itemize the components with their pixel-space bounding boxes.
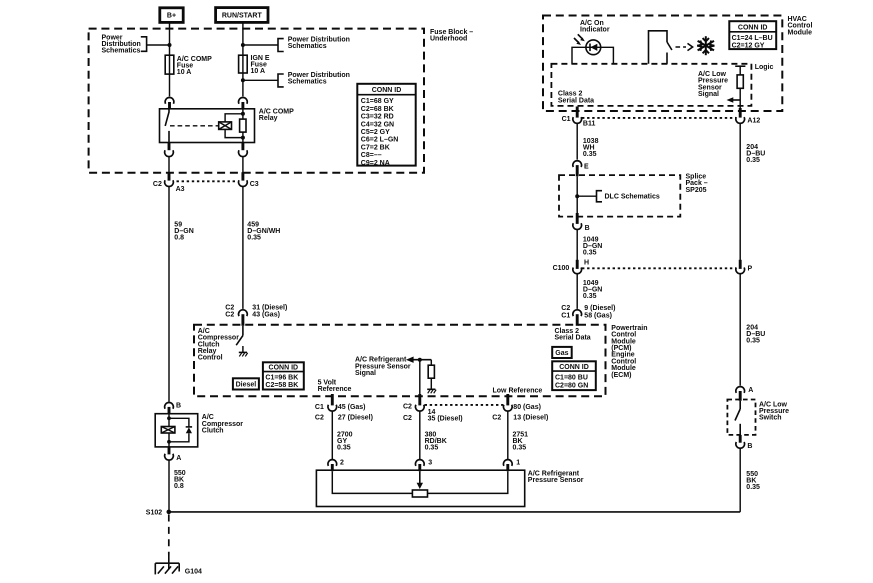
dotted connector line C100 H to P	[582, 267, 736, 269]
wire sensor signal down to PCM edge	[419, 360, 421, 394]
wire 550 BK 0.35 down to S102 line	[739, 448, 741, 512]
arrow to snowflake	[688, 43, 693, 50]
connector cup B11	[573, 117, 582, 123]
svg-text:58 (Gas): 58 (Gas)	[584, 312, 612, 319]
wire relay to fuse block edge (right)	[242, 157, 244, 174]
svg-text:27 (Diesel): 27 (Diesel)	[338, 414, 373, 421]
ground (PCM sensor)	[427, 388, 435, 390]
wire 1038 WH down	[576, 123, 578, 159]
node junction on RUN/START wire (upper)	[241, 43, 245, 47]
clutch coil box with X	[161, 427, 175, 434]
powertrain control module dashed box	[194, 325, 606, 396]
svg-text:Relay: Relay	[259, 115, 278, 122]
wire 550 BK 0.8 down to S102	[168, 460, 170, 512]
svg-text:Clutch: Clutch	[202, 428, 224, 435]
pin into LP switch	[739, 391, 742, 401]
clutch coil wire top	[168, 414, 170, 426]
svg-text:C4=32 GN: C4=32 GN	[361, 121, 394, 128]
node junction on B+ wire	[168, 43, 172, 47]
A/C low pressure switch dashed box	[727, 400, 755, 435]
svg-text:1: 1	[516, 459, 520, 466]
wire 1049 D-GN upper	[576, 230, 578, 262]
wire inside splice pack	[576, 176, 578, 213]
lamp A/C On indicator (LED circle)	[586, 40, 601, 55]
bracket to DLC Schematics	[597, 191, 603, 202]
svg-text:0.35: 0.35	[425, 445, 439, 452]
svg-text:0.35: 0.35	[583, 151, 597, 158]
svg-text:B: B	[176, 403, 181, 410]
connector arch E into splice pack	[573, 161, 582, 167]
svg-text:C2: C2	[225, 305, 234, 312]
svg-text:S102: S102	[146, 510, 162, 517]
svg-text:31 (Diesel): 31 (Diesel)	[252, 305, 287, 312]
switch A/C request (in HVAC)	[649, 31, 668, 64]
wire 459 D-GN/WH from C3 down to PCM	[242, 186, 244, 309]
wire bracket to B+ node	[147, 44, 170, 46]
dashed wire S102 to G104	[168, 515, 170, 555]
pin out of splice pack	[576, 213, 579, 224]
node S102 splice	[167, 510, 172, 515]
svg-text:Schematics: Schematics	[288, 43, 327, 50]
svg-text:2: 2	[340, 459, 344, 466]
wire 59 D-GN from A3 down to clutch	[168, 186, 170, 402]
svg-text:C2: C2	[225, 312, 234, 319]
svg-text:C1=24 L–BU: C1=24 L–BU	[732, 35, 773, 42]
svg-text:Control: Control	[198, 355, 223, 362]
connector arch pin 1	[503, 460, 512, 466]
pin C100 (left)	[576, 260, 579, 269]
node junction on RUN/START wire (lower)	[241, 78, 245, 82]
svg-text:0.35: 0.35	[583, 250, 597, 257]
svg-text:G104: G104	[185, 569, 202, 576]
snowflake symbol	[697, 36, 714, 55]
switch blade	[667, 42, 672, 50]
svg-text:Logic: Logic	[755, 64, 774, 71]
svg-text:H: H	[584, 260, 589, 267]
resistor (PCM pull)	[428, 365, 434, 378]
svg-text:Schematics: Schematics	[102, 47, 141, 54]
svg-text:CONN ID: CONN ID	[372, 87, 402, 94]
wire 204 D-BU lower	[739, 274, 741, 386]
svg-text:E: E	[584, 163, 589, 170]
svg-text:CONN ID: CONN ID	[269, 365, 299, 372]
svg-text:C100: C100	[553, 265, 570, 272]
wire junction to DLC bracket	[577, 195, 596, 197]
svg-text:10 A: 10 A	[251, 68, 266, 75]
pin C100 (right P)	[739, 260, 742, 269]
svg-text:C8=––: C8=––	[361, 152, 382, 159]
svg-text:Switch: Switch	[759, 415, 782, 422]
connector arch A into LP switch	[736, 387, 745, 393]
clutch coil wire bottom	[168, 433, 170, 447]
pin out of relay (left)	[168, 143, 171, 151]
pin into PCM (class2)	[576, 314, 579, 326]
svg-text:0.35: 0.35	[513, 445, 527, 452]
pin 3 into sensor	[418, 464, 421, 471]
wire relay right through resistor	[242, 109, 244, 119]
connector arch at relay pin 2	[239, 98, 248, 104]
pin into clutch	[168, 407, 171, 415]
connector arch pin 2	[328, 460, 337, 466]
svg-text:Module: Module	[788, 29, 813, 36]
node clutch top junction	[167, 416, 171, 420]
svg-text:Low Reference: Low Reference	[493, 388, 543, 395]
bracket to Power Distribution Schematics (upper right)	[278, 39, 284, 52]
node RUN/START terminal box	[216, 8, 268, 23]
svg-text:0.35: 0.35	[746, 157, 760, 164]
node B+ terminal box	[160, 8, 183, 23]
svg-text:C2=80 GN: C2=80 GN	[555, 382, 588, 389]
LP switch blade	[735, 409, 740, 421]
wire coil parallel branch bottom	[225, 129, 243, 137]
svg-text:C1: C1	[562, 116, 571, 123]
connector cup below relay (left)	[165, 150, 174, 156]
wire 2700 GY down	[331, 411, 333, 459]
svg-text:9 (Diesel): 9 (Diesel)	[584, 305, 615, 312]
connector cup below relay (right)	[239, 150, 248, 156]
sensor internal right wire	[428, 471, 508, 493]
pin out of PCM (5V ref)	[331, 394, 334, 405]
svg-text:0.35: 0.35	[337, 445, 351, 452]
relay actuation dashed link	[170, 125, 219, 127]
svg-text:C2=58 BK: C2=58 BK	[265, 382, 298, 389]
ground (PCM relay control)	[242, 346, 244, 352]
connector arch pin 3	[415, 460, 424, 466]
svg-text:80 (Gas): 80 (Gas)	[513, 404, 541, 411]
svg-text:Diesel: Diesel	[236, 382, 257, 389]
svg-text:A12: A12	[747, 118, 760, 125]
svg-text:C2=12 GY: C2=12 GY	[732, 42, 765, 49]
fuse IGN E Fuse 10 A	[239, 55, 248, 73]
svg-text:B+: B+	[167, 13, 176, 20]
relay control switch blade	[236, 336, 243, 346]
svg-text:CONN ID: CONN ID	[559, 364, 589, 371]
node clutch bottom junction	[167, 440, 171, 444]
svg-text:C2: C2	[403, 415, 412, 422]
svg-text:C2: C2	[561, 305, 570, 312]
svg-text:Reference: Reference	[318, 386, 352, 393]
bracket to Power Distribution Schematics (left)	[141, 37, 147, 52]
svg-text:Serial Data: Serial Data	[555, 335, 591, 342]
svg-text:CONN ID: CONN ID	[738, 24, 768, 31]
svg-text:C3: C3	[250, 181, 259, 188]
svg-text:C1=96 BK: C1=96 BK	[265, 374, 298, 381]
svg-text:C1: C1	[315, 404, 324, 411]
bracket to Power Distribution Schematics (lower right)	[278, 74, 284, 87]
CONN ID table (HVAC)	[729, 21, 776, 49]
svg-text:C2=68 BK: C2=68 BK	[361, 106, 394, 113]
connector cup P	[736, 268, 745, 274]
wire junction to bracket (lower right)	[243, 79, 278, 81]
svg-text:DLC Schematics: DLC Schematics	[605, 194, 660, 201]
wire resistor to ground	[430, 378, 432, 389]
dotted connector line B11 to A12	[582, 117, 736, 119]
wire coil parallel branch top	[225, 114, 243, 122]
wire relay to fuse block edge (left)	[168, 157, 170, 174]
pin C1 out of HVAC	[576, 107, 579, 118]
svg-text:43 (Gas): 43 (Gas)	[252, 312, 280, 319]
svg-text:B11: B11	[583, 120, 596, 127]
svg-text:45 (Gas): 45 (Gas)	[338, 404, 366, 411]
wire RUN/START down to fuse	[242, 22, 244, 55]
svg-text:A: A	[176, 455, 181, 462]
pin out of PCM (sensor signal)	[418, 394, 421, 405]
svg-text:Gas: Gas	[555, 350, 568, 357]
wire 1049 D-GN lower	[576, 274, 578, 309]
wire logic down	[739, 66, 741, 75]
connector C3 cup (right)	[239, 180, 248, 186]
svg-text:B: B	[585, 225, 590, 232]
svg-text:0.35: 0.35	[247, 234, 261, 241]
svg-text:B: B	[747, 443, 752, 450]
relay coil box with X	[219, 122, 232, 129]
pin into relay (right)	[241, 102, 244, 110]
sensor internal left wire	[332, 471, 412, 493]
svg-text:C3=32 RD: C3=32 RD	[361, 114, 394, 121]
svg-text:Pressure Sensor: Pressure Sensor	[528, 477, 584, 484]
HVAC control module dashed box	[543, 16, 782, 112]
relay switch contact (left)	[165, 109, 169, 126]
svg-text:C9=2 NA: C9=2 NA	[361, 160, 390, 167]
ground G104	[168, 555, 170, 570]
pin into splice pack	[576, 165, 579, 176]
LP switch lower stub	[739, 424, 741, 435]
pin A12 out of HVAC	[739, 108, 742, 118]
relay K: A/C COMP Relay box	[160, 109, 255, 143]
svg-text:C2: C2	[403, 404, 412, 411]
svg-text:Underhood: Underhood	[430, 35, 467, 42]
connector cup A (clutch)	[165, 454, 174, 460]
connector cup C100 H	[573, 268, 582, 274]
svg-text:C1=80 BU: C1=80 BU	[555, 374, 588, 381]
svg-text:Signal: Signal	[698, 91, 719, 98]
svg-text:(ECM): (ECM)	[611, 372, 631, 379]
pin out of PCM (low ref)	[506, 394, 509, 405]
connector arch at relay pin 1	[165, 98, 174, 104]
dashed actuation to snowflake	[676, 46, 687, 48]
wire resistor down	[739, 88, 741, 108]
CONN ID table (fuse block)	[357, 84, 415, 166]
svg-text:0.35: 0.35	[746, 484, 760, 491]
pin crossing fuse block edge (left)	[168, 172, 171, 180]
A/C compressor clutch box	[155, 414, 198, 447]
svg-text:RUN/START: RUN/START	[222, 13, 263, 20]
relay switch lower contact stub	[168, 131, 170, 143]
svg-text:3: 3	[428, 460, 432, 467]
clutch diode branch	[169, 418, 189, 427]
Diesel tag box	[233, 378, 259, 389]
indicator light arrows	[578, 34, 583, 39]
connector cup C1/C2 45/27	[328, 405, 337, 411]
svg-text:35 (Diesel): 35 (Diesel)	[428, 416, 463, 423]
fuse A/C COMP Fuse 10 A	[165, 55, 174, 74]
svg-text:C6=2 L–GN: C6=2 L–GN	[361, 137, 399, 144]
wire 204 D-BU upper	[739, 123, 741, 261]
svg-text:A: A	[748, 387, 753, 394]
svg-text:Indicator: Indicator	[580, 27, 610, 34]
node junction on sensor signal wire	[418, 358, 422, 362]
sensor internal signal wire with arrow	[419, 471, 421, 483]
connector arch into PCM (class2)	[573, 310, 582, 316]
wire 2751 BK down	[507, 411, 509, 459]
arrow A/C refrigerant pressure sensor signal	[406, 357, 414, 363]
CONN ID table (PCM diesel)	[263, 362, 304, 389]
svg-text:C1=68 GY: C1=68 GY	[361, 98, 394, 105]
wire fuse B down	[242, 73, 244, 96]
logic inner dashed box	[551, 64, 751, 106]
connector arch B (clutch)	[165, 403, 174, 409]
svg-text:Serial Data: Serial Data	[558, 97, 594, 104]
svg-text:0.8: 0.8	[174, 483, 184, 490]
connector cup C2 80/13	[503, 405, 512, 411]
wire fuse A to relay	[169, 74, 171, 96]
connector arch into PCM (relay control)	[239, 310, 248, 316]
svg-text:Signal: Signal	[355, 370, 376, 377]
wire to PCM internal resistor	[430, 360, 432, 366]
svg-text:0.8: 0.8	[174, 234, 184, 241]
svg-text:Schematics: Schematics	[288, 78, 327, 85]
connector cup B (splice)	[573, 223, 582, 229]
splice pack dashed box	[559, 175, 680, 217]
connector C2 cup (left)	[165, 180, 174, 186]
pin 1 into sensor	[506, 464, 509, 471]
pin out of LP switch	[739, 435, 742, 443]
node relay top junction	[241, 112, 245, 116]
resistor (HVAC pull-up)	[737, 75, 743, 88]
pin 2 into sensor	[331, 464, 334, 471]
node relay bottom junction	[241, 136, 245, 140]
svg-text:13 (Diesel): 13 (Diesel)	[513, 414, 548, 421]
CONN ID table (PCM gas)	[552, 361, 596, 390]
svg-text:0.35: 0.35	[583, 293, 597, 300]
svg-text:A3: A3	[176, 186, 185, 193]
wire indicator left leg	[572, 47, 613, 64]
svg-text:10 A: 10 A	[177, 69, 192, 76]
Gas tag box	[552, 347, 572, 358]
svg-text:C7=2 BK: C7=2 BK	[361, 144, 390, 151]
switch lower stub	[666, 53, 668, 64]
dotted connector line C2 to C3	[177, 180, 237, 182]
node splice junction	[575, 194, 579, 198]
pin out of clutch	[168, 447, 171, 455]
svg-text:C5=2 GY: C5=2 GY	[361, 129, 390, 136]
A/C refrigerant pressure sensor box	[316, 470, 524, 506]
relay control wire inside PCM	[242, 326, 244, 336]
sensor transducer element	[412, 490, 427, 497]
wire S102 bus to right	[169, 511, 740, 513]
pin into relay (left)	[168, 102, 171, 110]
pin into PCM (relay control)	[241, 314, 244, 326]
wire B+ down to fuse	[169, 22, 171, 55]
connector cup C2 14/35	[415, 405, 424, 411]
svg-text:P: P	[748, 266, 753, 273]
svg-text:C2: C2	[315, 414, 324, 421]
pin crossing fuse block edge (right)	[241, 172, 244, 180]
svg-text:C1: C1	[561, 312, 570, 319]
relay internal resistor	[240, 119, 246, 132]
pin out of relay (right)	[241, 143, 244, 151]
wire 380 RD/BK down	[419, 411, 421, 459]
diode (clutch flyback)	[186, 426, 192, 428]
fuse block - underhood dashed box	[89, 29, 424, 173]
svg-text:C2: C2	[153, 181, 162, 188]
svg-text:0.35: 0.35	[746, 338, 760, 345]
logic tick bar	[735, 65, 745, 67]
svg-text:C2: C2	[492, 414, 501, 421]
LP switch wire upper	[739, 401, 741, 409]
connector cup A12	[736, 117, 745, 123]
svg-text:SP205: SP205	[686, 187, 707, 194]
wire junction to bracket (upper right)	[243, 44, 278, 46]
connector cup B (LP switch)	[736, 442, 745, 448]
arrow A/C low pressure sensor signal	[732, 99, 740, 101]
dotted connector line middle to right	[425, 404, 504, 406]
